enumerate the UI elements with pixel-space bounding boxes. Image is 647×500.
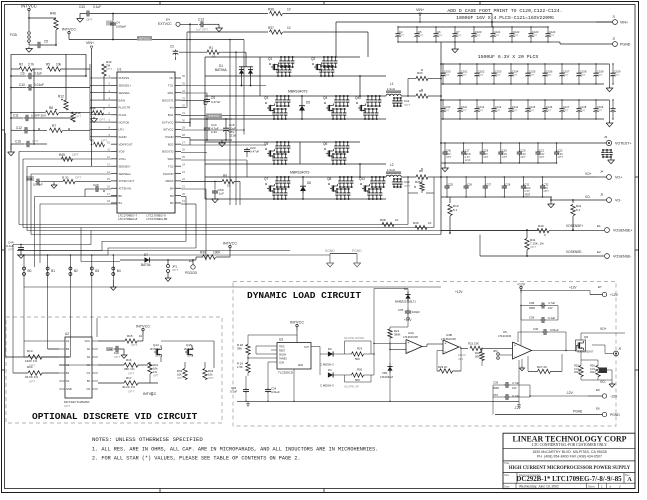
svg-text:OPT: OPT xyxy=(208,376,214,380)
capacitor C5 xyxy=(29,30,57,48)
terminal J1 VIN+ xyxy=(596,15,628,25)
wire dyn gnd rail xyxy=(237,401,519,407)
svg-text:10: 10 xyxy=(428,221,432,225)
svg-text:VBIAS: VBIAS xyxy=(165,179,173,183)
capacitor C34 xyxy=(265,387,280,402)
svg-text:1uF OPT: 1uF OPT xyxy=(196,28,208,32)
svg-text:R45: R45 xyxy=(59,153,65,157)
capacitor C2 xyxy=(170,45,178,61)
svg-text:U1: U1 xyxy=(117,68,121,72)
svg-text:J2: J2 xyxy=(612,37,616,41)
capacitor C4 1000pF xyxy=(106,14,126,41)
svg-text:EAIN: EAIN xyxy=(119,98,126,102)
resistor R4 xyxy=(416,89,442,98)
svg-text:Q4: Q4 xyxy=(323,96,327,100)
transistor Q14 xyxy=(150,343,161,358)
wire left border verticals xyxy=(6,133,14,373)
svg-text:EXTVCC: EXTVCC xyxy=(162,120,173,124)
svg-text:E6: E6 xyxy=(596,407,600,411)
note text add d case xyxy=(447,8,562,21)
resistor R35 xyxy=(408,177,434,193)
svg-text:ATTEN IN: ATTEN IN xyxy=(119,186,132,190)
svg-text:OPT: OPT xyxy=(563,109,569,113)
svg-text:*: * xyxy=(505,186,506,190)
terminal B4 xyxy=(112,254,121,275)
svg-text:28K 1%: 28K 1% xyxy=(124,367,135,371)
svg-text:C29: C29 xyxy=(93,183,99,187)
terminal E2 VOSENSE- xyxy=(480,250,632,259)
resistor R39 xyxy=(413,221,432,230)
capacitor C10 xyxy=(10,83,90,91)
svg-text:DYNAMIC LOAD CIRCUIT: DYNAMIC LOAD CIRCUIT xyxy=(247,290,361,301)
capacitor C23 xyxy=(244,146,260,157)
svg-text:R46: R46 xyxy=(50,12,56,16)
svg-text:OPT: OPT xyxy=(520,155,526,159)
svg-text:50K: 50K xyxy=(475,355,480,359)
svg-text:E7: E7 xyxy=(598,285,602,289)
svg-text:2. FOR ALL STAR (*) VALUES, PL: 2. FOR ALL STAR (*) VALUES, PLEASE SEE T… xyxy=(92,456,301,462)
transistor Q9 xyxy=(576,335,594,354)
net label INTVCC6 xyxy=(290,321,304,343)
wire cluster verticals xyxy=(205,42,441,235)
svg-text:39K: 39K xyxy=(237,347,242,351)
svg-text:C109: C109 xyxy=(597,70,604,74)
svg-text:.1uF: .1uF xyxy=(218,192,224,196)
svg-text:LTC1709EG-85: LTC1709EG-85 xyxy=(147,217,168,221)
capacitor C32b xyxy=(230,386,249,401)
net label VIN+ xyxy=(86,41,94,166)
svg-text:OPT: OPT xyxy=(544,189,550,193)
svg-text:1.0uH: 1.0uH xyxy=(387,168,395,172)
svg-text:B0: B0 xyxy=(66,347,70,351)
svg-text:VIN+: VIN+ xyxy=(86,41,94,45)
svg-text:OPT: OPT xyxy=(530,245,536,249)
svg-text:PGND: PGND xyxy=(620,43,631,47)
svg-text:INTVCC: INTVCC xyxy=(209,114,220,118)
title block xyxy=(503,433,635,488)
ground xyxy=(606,100,613,127)
svg-text:BAT54: BAT54 xyxy=(141,263,151,267)
svg-text:50K: 50K xyxy=(355,357,360,361)
svg-text:100pF: 100pF xyxy=(412,310,420,314)
svg-text:R14: R14 xyxy=(27,365,33,369)
svg-text:J1: J1 xyxy=(612,15,616,19)
svg-text:L2: L2 xyxy=(390,163,394,167)
resistor R5b OPT xyxy=(90,138,107,146)
net label FCB xyxy=(10,32,30,43)
svg-text:O3: O3 xyxy=(87,387,91,391)
svg-text:C118: C118 xyxy=(580,105,587,109)
svg-text:C104: C104 xyxy=(512,70,519,74)
svg-text:C16: C16 xyxy=(15,140,21,144)
resistor R22 xyxy=(460,342,513,351)
svg-text:OPT: OPT xyxy=(502,155,508,159)
svg-text:3528: 3528 xyxy=(493,386,499,390)
svg-text:SENSE1-: SENSE1- xyxy=(119,91,131,95)
svg-text:B4: B4 xyxy=(170,186,174,190)
wire out to row4 xyxy=(440,142,442,144)
diode D1 BAT54A xyxy=(215,52,253,86)
svg-text:SLOPE DOWN: SLOPE DOWN xyxy=(344,336,364,340)
resistor R45 xyxy=(59,153,79,161)
svg-text:2.7k: 2.7k xyxy=(28,63,34,67)
wire grid left xyxy=(11,54,86,150)
svg-text:*: * xyxy=(448,186,449,190)
svg-text:100K: 100K xyxy=(213,251,221,255)
svg-text:SUD50N03-07: SUD50N03-07 xyxy=(577,351,594,354)
svg-text:OPT: OPT xyxy=(404,184,410,188)
svg-text:E1: E1 xyxy=(597,224,601,228)
transistor Q12 xyxy=(359,176,385,200)
svg-text:INTVCC: INTVCC xyxy=(136,325,150,329)
capacitor C44 xyxy=(106,346,127,359)
svg-text:PGND: PGND xyxy=(573,410,583,414)
svg-text:5.1: 5.1 xyxy=(453,208,458,212)
svg-text:GND: GND xyxy=(66,387,72,391)
resistor R32 xyxy=(177,369,187,381)
terminal J3 VOTEST+ xyxy=(565,135,631,146)
svg-text:OPT: OPT xyxy=(114,355,120,359)
svg-text:B0: B0 xyxy=(28,269,32,273)
svg-text:3216: 3216 xyxy=(229,134,236,138)
capacitor C11 OPT comb xyxy=(392,97,410,107)
svg-text:C115: C115 xyxy=(529,105,536,109)
svg-text:Q3: Q3 xyxy=(264,96,268,100)
op-amp U1 LTC1709 controller xyxy=(107,68,185,222)
svg-text:C57: C57 xyxy=(493,393,499,397)
svg-text:VIN+: VIN+ xyxy=(620,21,628,25)
wire out to row3 xyxy=(440,99,442,101)
svg-text:OPT: OPT xyxy=(187,354,193,358)
wire u3 gnd xyxy=(293,369,295,401)
resistor R44 xyxy=(90,107,105,115)
svg-text:LTC CONFIDENTIAL-FOR CUSTOMER: LTC CONFIDENTIAL-FOR CUSTOMER ONLY xyxy=(532,443,607,447)
resistor R1 xyxy=(179,46,246,59)
svg-text:C116: C116 xyxy=(546,105,553,109)
svg-text:B1: B1 xyxy=(66,371,70,375)
resistor R13 xyxy=(6,349,60,368)
svg-text:C36: C36 xyxy=(493,381,499,385)
svg-text:LTC1709EG-8: LTC1709EG-8 xyxy=(118,217,137,221)
terminal E6 PGND xyxy=(493,397,620,417)
transistor Q15 xyxy=(184,343,194,358)
svg-text:0.47uF: 0.47uF xyxy=(250,150,260,154)
svg-text:2512: 2512 xyxy=(590,370,596,374)
transistor Q1 xyxy=(268,56,294,77)
resistor R40 xyxy=(441,224,604,237)
svg-text:R13: R13 xyxy=(27,349,33,353)
svg-text:OPT: OPT xyxy=(404,103,410,107)
capacitor C16 xyxy=(11,140,47,148)
wire staircase bus xyxy=(13,197,196,268)
svg-text:C32: C32 xyxy=(544,183,549,187)
wire phase rail xyxy=(205,96,386,119)
diode D3 xyxy=(320,347,345,376)
capacitor bank row4 C42 C17-C22 xyxy=(441,142,565,163)
svg-text:C112: C112 xyxy=(478,105,485,109)
svg-text:BG2: BG2 xyxy=(168,142,174,146)
svg-text:OPT: OPT xyxy=(29,380,35,384)
capacitor C29 xyxy=(85,183,111,197)
net label INTVCC3 xyxy=(223,242,237,257)
svg-text:C42: C42 xyxy=(446,149,451,153)
resistor R42 xyxy=(102,60,113,100)
terminal J4 VO+ xyxy=(585,170,622,180)
wire +12v rail xyxy=(455,283,590,345)
svg-text:OPT: OPT xyxy=(461,73,467,77)
svg-text:BAT54A: BAT54A xyxy=(215,68,228,72)
wire vid bus xyxy=(17,251,441,288)
resistor R6 xyxy=(10,106,90,115)
svg-text:0.01uF: 0.01uF xyxy=(550,328,559,332)
svg-text:162K 1%: 162K 1% xyxy=(25,359,38,363)
svg-text:SGND: SGND xyxy=(119,135,127,139)
svg-text:R12: R12 xyxy=(58,95,64,99)
svg-text:C114: C114 xyxy=(512,105,519,109)
svg-text:INTVCC: INTVCC xyxy=(21,4,37,9)
svg-text:R34: R34 xyxy=(417,71,423,75)
svg-text:J3: J3 xyxy=(604,135,608,139)
svg-text:OPT: OPT xyxy=(75,175,81,179)
op-amp U4A xyxy=(373,331,422,354)
svg-text:VOSENSE+: VOSENSE+ xyxy=(613,229,632,233)
svg-text:J4: J4 xyxy=(600,170,604,174)
dashed box optional vid xyxy=(6,317,222,423)
svg-text:C113: C113 xyxy=(495,105,502,109)
capacitor C13 xyxy=(196,18,215,32)
svg-text:OPT: OPT xyxy=(495,109,501,113)
svg-text:NC: NC xyxy=(169,76,173,80)
svg-text:R 20: R 20 xyxy=(62,175,69,179)
svg-text:4.7uF: 4.7uF xyxy=(548,301,555,305)
svg-text:OPT: OPT xyxy=(529,109,535,113)
svg-text:PGOOD: PGOOD xyxy=(185,271,198,275)
svg-text:OUT: OUT xyxy=(304,347,309,349)
svg-text:3528: 3528 xyxy=(529,306,535,310)
svg-text:C21: C21 xyxy=(539,149,544,153)
wire vid internals xyxy=(149,341,214,383)
ground PGND xyxy=(330,249,362,267)
net label INTVCC4 xyxy=(136,325,150,341)
svg-text:VO-: VO- xyxy=(615,199,622,203)
svg-text:VOTEST+: VOTEST+ xyxy=(615,142,631,146)
terminal B3 xyxy=(90,254,99,275)
svg-text:SENSE2+: SENSE2+ xyxy=(119,172,132,176)
svg-text:MMBZ5231BLT1: MMBZ5231BLT1 xyxy=(395,300,416,304)
svg-text:OPT: OPT xyxy=(580,73,586,77)
sense pad blob xyxy=(599,368,612,374)
svg-text:C117: C117 xyxy=(563,105,570,109)
resistor R21 xyxy=(388,320,408,338)
svg-text:C122: C122 xyxy=(513,30,520,34)
resistor R31 xyxy=(148,363,159,378)
svg-text:TLC555CD: TLC555CD xyxy=(278,371,294,375)
svg-text:390K: 390K xyxy=(394,333,401,337)
svg-text:R17: R17 xyxy=(126,376,132,380)
terminal E3 PGOOD xyxy=(185,259,198,275)
svg-text:OPT: OPT xyxy=(461,109,467,113)
resistor R20 OPT xyxy=(54,175,111,183)
terminal J6 xyxy=(592,345,622,356)
svg-text:R39: R39 xyxy=(413,221,419,225)
svg-text:10: 10 xyxy=(395,218,399,222)
svg-text:ATTEN OUT: ATTEN OUT xyxy=(119,179,135,183)
capacitor bank row1 C6-C124 xyxy=(395,26,560,44)
svg-text:Q8: Q8 xyxy=(327,177,331,181)
svg-text:16V: 16V xyxy=(512,386,517,390)
wire b-pin routes right xyxy=(181,197,196,249)
svg-text:2N7002: 2N7002 xyxy=(150,347,160,351)
svg-text:C18: C18 xyxy=(483,149,488,153)
svg-text:OPT: OPT xyxy=(546,109,552,113)
svg-text:E2: E2 xyxy=(597,250,601,254)
net label +12Va xyxy=(404,316,412,323)
svg-text:Q7: Q7 xyxy=(264,177,268,181)
net label VIN+ flag xyxy=(416,8,424,23)
svg-text:ADJ.: ADJ. xyxy=(458,357,464,361)
terminal E5 -12V xyxy=(588,388,618,399)
svg-text:OPT: OPT xyxy=(86,18,93,22)
svg-text:Vin: Vin xyxy=(170,106,174,110)
svg-text:A1: A1 xyxy=(66,339,70,343)
wire long verticals xyxy=(190,24,244,205)
svg-text:C120: C120 xyxy=(475,30,482,34)
svg-text:1.0uH: 1.0uH xyxy=(387,87,395,91)
svg-text:OPT: OPT xyxy=(75,115,81,119)
svg-text:DISCH: DISCH xyxy=(279,355,286,357)
svg-text:C101: C101 xyxy=(461,70,468,74)
svg-text:OPT: OPT xyxy=(444,109,450,113)
svg-text:R27 2K: R27 2K xyxy=(537,365,547,369)
capacitor comb J3 xyxy=(601,149,614,164)
svg-text:0.1uF: 0.1uF xyxy=(548,316,555,320)
svg-text:A3: A3 xyxy=(87,355,91,359)
svg-text:4.7uF: 4.7uF xyxy=(512,381,519,385)
svg-text:100PF 50V: 100PF 50V xyxy=(31,114,46,118)
resistor R8 xyxy=(416,168,442,179)
svg-text:R22 15K: R22 15K xyxy=(468,342,479,346)
svg-text:10: 10 xyxy=(227,184,231,188)
svg-text:LT1210CR: LT1210CR xyxy=(498,334,511,338)
capacitor C11 xyxy=(10,114,73,122)
wire vin top rail xyxy=(336,21,612,57)
svg-text:C9: C9 xyxy=(21,72,25,76)
svg-text:D7: D7 xyxy=(144,253,148,257)
svg-text:R7: R7 xyxy=(52,124,56,128)
label optional discrete vid circuit xyxy=(32,411,198,422)
svg-text:C107: C107 xyxy=(563,70,570,74)
svg-text:2512: 2512 xyxy=(574,370,580,374)
svg-text:Size: Size xyxy=(504,473,510,477)
capacitor bank row3 C110-C119 xyxy=(440,99,615,119)
svg-text:OPT: OPT xyxy=(32,140,39,144)
svg-text:TG2: TG2 xyxy=(168,164,174,168)
transistor Q3 xyxy=(264,95,290,120)
resistor R25 xyxy=(574,351,583,377)
svg-text:C35: C35 xyxy=(398,308,404,312)
svg-text:C124: C124 xyxy=(549,30,556,34)
resistor R20 xyxy=(345,368,375,383)
svg-text:OPT: OPT xyxy=(513,34,519,38)
svg-text:OPT: OPT xyxy=(418,34,424,38)
svg-text:RSET: RSET xyxy=(279,351,286,353)
svg-text:C7: C7 xyxy=(456,30,460,34)
svg-text:1. ALL RES. ARE IN OHMS, ALL C: 1. ALL RES. ARE IN OHMS, ALL CAP. ARE IN… xyxy=(92,447,378,453)
svg-text:RUN/SS: RUN/SS xyxy=(119,76,130,80)
svg-text:93.6K 1%: 93.6K 1% xyxy=(25,375,38,379)
svg-text:Sheet: Sheet xyxy=(588,484,595,488)
svg-text:1500UF 6.3V X 20 PLCS: 1500UF 6.3V X 20 PLCS xyxy=(478,54,539,60)
wire vid feeds xyxy=(24,287,97,365)
resistor R10 xyxy=(448,197,459,234)
net label INTVCC xyxy=(21,4,37,15)
svg-text:D5: D5 xyxy=(306,101,310,105)
svg-text:OPT: OPT xyxy=(172,268,178,272)
svg-text:OPT: OPT xyxy=(446,155,452,159)
ground xyxy=(77,14,93,23)
label dynamic load circuit xyxy=(247,290,361,301)
svg-text:R6: R6 xyxy=(49,106,53,110)
resistor R2 xyxy=(11,63,42,72)
svg-text:C43: C43 xyxy=(79,5,85,9)
svg-text:C44: C44 xyxy=(107,348,113,352)
diode D7 BAT54 xyxy=(120,253,169,267)
svg-text:INTVCC: INTVCC xyxy=(143,392,157,396)
terminal B2 xyxy=(69,254,78,275)
svg-text:B2: B2 xyxy=(170,201,174,205)
svg-text:A2: A2 xyxy=(87,347,91,351)
svg-text:C38: C38 xyxy=(529,301,535,305)
svg-text:SENSE3-: SENSE3- xyxy=(119,164,131,168)
svg-text:OPT: OPT xyxy=(524,195,530,199)
svg-text:OPT: OPT xyxy=(597,73,603,77)
svg-text:+12V: +12V xyxy=(569,286,577,290)
ground xyxy=(606,64,613,92)
svg-text:R30: R30 xyxy=(200,251,206,255)
svg-text:BOOST1: BOOST1 xyxy=(162,98,174,102)
svg-text:0.01uF: 0.01uF xyxy=(34,83,44,87)
svg-text:THRES: THRES xyxy=(279,359,287,361)
svg-text:U2: U2 xyxy=(65,332,69,336)
resistor R18 xyxy=(237,335,297,355)
op-amp U5 LT1210CR xyxy=(498,330,576,359)
svg-text:J6: J6 xyxy=(618,347,622,351)
svg-text:OPT: OPT xyxy=(532,34,538,38)
svg-text:C27: C27 xyxy=(486,183,491,187)
svg-text:*: * xyxy=(486,186,487,190)
svg-text:PGND: PGND xyxy=(165,135,173,139)
svg-text:BG1: BG1 xyxy=(168,113,174,117)
wire phase rail xyxy=(205,57,386,76)
capacitor C13 OPT comb xyxy=(392,178,410,188)
svg-text:OPT: OPT xyxy=(558,155,564,159)
svg-text:PLLFLTR: PLLFLTR xyxy=(119,106,131,110)
svg-text:A: A xyxy=(627,476,632,483)
resistor R41 xyxy=(525,229,544,257)
wire intvcc rail xyxy=(69,36,244,41)
svg-text:INTVCC: INTVCC xyxy=(163,128,173,132)
resistor R16 xyxy=(98,358,148,376)
resistor R9 xyxy=(181,174,240,205)
label 1500uf xyxy=(478,54,539,60)
svg-text:OPT: OPT xyxy=(153,374,159,378)
svg-text:E4: E4 xyxy=(166,18,170,22)
transistor Q8 xyxy=(327,176,353,200)
svg-text:+12V: +12V xyxy=(455,290,463,294)
svg-text:OPT: OPT xyxy=(495,73,501,77)
svg-text:HIGH CURRENT MICROPROCESSOR PO: HIGH CURRENT MICROPROCESSOR POWER SUPPLY xyxy=(509,466,631,471)
diode D2 MMBZ5231BLT1 xyxy=(374,287,416,304)
